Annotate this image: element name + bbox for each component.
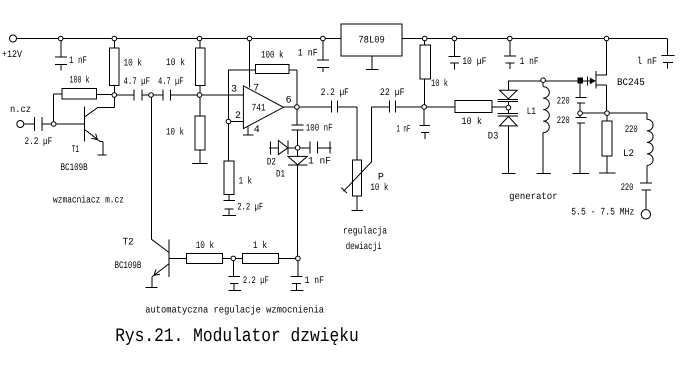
svg-text:regulacja: regulacja xyxy=(343,226,387,238)
svg-text:1 k: 1 k xyxy=(253,240,267,252)
svg-text:BC109B: BC109B xyxy=(61,163,88,174)
svg-text:220: 220 xyxy=(621,183,634,194)
svg-text:1 nF: 1 nF xyxy=(308,157,331,168)
svg-text:2.2 µF: 2.2 µF xyxy=(243,276,269,287)
svg-text:10 k: 10 k xyxy=(196,240,214,252)
svg-text:L2: L2 xyxy=(623,149,634,160)
svg-text:T1: T1 xyxy=(72,145,80,156)
svg-text:100 nF: 100 nF xyxy=(306,124,333,135)
svg-text:220: 220 xyxy=(625,125,638,136)
svg-text:1 nF: 1 nF xyxy=(69,56,87,67)
svg-text:l nF: l nF xyxy=(637,56,657,68)
svg-text:741: 741 xyxy=(252,103,266,114)
svg-text:Rys.21. Modulator dzwięku: Rys.21. Modulator dzwięku xyxy=(115,325,359,347)
svg-text:wzmacniacz m.cz: wzmacniacz m.cz xyxy=(53,195,124,207)
svg-text:D2: D2 xyxy=(267,158,276,169)
svg-text:n.cz: n.cz xyxy=(10,105,31,116)
svg-text:7: 7 xyxy=(253,84,259,95)
svg-text:1 nF: 1 nF xyxy=(520,57,539,68)
svg-text:4: 4 xyxy=(254,125,260,136)
svg-text:1 nF: 1 nF xyxy=(298,49,318,60)
svg-text:100 k: 100 k xyxy=(261,50,284,62)
svg-text:1 nF: 1 nF xyxy=(396,124,410,135)
svg-text:10 k: 10 k xyxy=(166,57,185,69)
svg-text:10 k: 10 k xyxy=(461,116,482,128)
svg-text:dewiacji: dewiacji xyxy=(346,241,382,253)
svg-text:2.2 µF: 2.2 µF xyxy=(237,202,263,213)
svg-text:D3: D3 xyxy=(488,132,499,143)
svg-text:22 µF: 22 µF xyxy=(380,88,405,99)
svg-text:1 nF: 1 nF xyxy=(305,276,324,287)
svg-text:P: P xyxy=(378,172,384,183)
svg-text:4.7 µF: 4.7 µF xyxy=(158,77,184,88)
svg-text:D1: D1 xyxy=(276,169,285,180)
svg-text:220: 220 xyxy=(557,116,570,127)
svg-text:100 k: 100 k xyxy=(70,75,90,87)
svg-text:5.5 - 7.5 MHz: 5.5 - 7.5 MHz xyxy=(571,208,634,219)
svg-text:10 k: 10 k xyxy=(431,78,448,90)
svg-text:2.2 µF: 2.2 µF xyxy=(321,88,349,99)
svg-text:10 k: 10 k xyxy=(166,127,184,139)
svg-text:+12V: +12V xyxy=(2,50,22,61)
svg-text:T2: T2 xyxy=(123,238,134,249)
svg-text:10 µF: 10 µF xyxy=(462,57,486,68)
svg-text:generator: generator xyxy=(509,192,557,203)
svg-text:automatyczna regulacje wzmocni: automatyczna regulacje wzmocnienia xyxy=(145,305,324,317)
svg-text:78L09: 78L09 xyxy=(358,36,384,47)
svg-text:4.7 µF: 4.7 µF xyxy=(124,77,151,88)
svg-text:6: 6 xyxy=(286,95,292,106)
svg-text:220: 220 xyxy=(557,97,570,108)
svg-text:1 k: 1 k xyxy=(239,176,252,188)
svg-text:2.2 µF: 2.2 µF xyxy=(25,137,53,148)
svg-text:L1: L1 xyxy=(527,107,536,118)
svg-text:BC109B: BC109B xyxy=(115,261,142,272)
svg-text:2: 2 xyxy=(235,111,241,122)
svg-text:BC245: BC245 xyxy=(617,78,645,89)
svg-text:3: 3 xyxy=(231,84,237,95)
svg-text:10 k: 10 k xyxy=(370,182,388,194)
svg-text:10 k: 10 k xyxy=(124,58,143,70)
